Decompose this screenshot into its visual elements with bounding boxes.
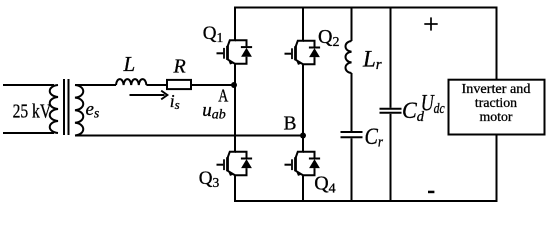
inverter and traction motor box (449, 80, 545, 135)
wire: left bridge rail (234, 8, 236, 202)
inductor L (116, 79, 146, 85)
wire: right bridge rail (302, 8, 304, 202)
wire: resistor to node A (191, 84, 235, 86)
wire: right edge to inverter (496, 8, 498, 202)
svg-text:R: R (173, 56, 186, 78)
svg-text:25 kV: 25 kV (13, 101, 52, 122)
transformer core (64, 79, 69, 135)
wire: 25 kV source top lead (3, 84, 54, 86)
svg-text:motor: motor (480, 109, 513, 124)
transformer secondary winding (75, 85, 83, 136)
IGBT Q2 (285, 41, 321, 65)
wire: secondary to inductor L (75, 84, 116, 86)
capacitor C_r (341, 132, 363, 137)
svg-text:Inverter and: Inverter and (462, 81, 531, 96)
current arrow i_s (130, 91, 168, 100)
svg-text:B: B (284, 113, 297, 134)
wire: C_r to bottom bus (351, 138, 353, 201)
IGBT Q3 (217, 152, 253, 176)
node B junction dot (300, 133, 306, 139)
inductor L_r (346, 41, 352, 73)
IGBT Q4 (285, 152, 321, 176)
plus terminal mark (424, 17, 437, 30)
wire: 25 kV source bottom lead (3, 132, 54, 134)
wire: inductor to resistor (146, 84, 167, 86)
resistor R (167, 80, 191, 89)
wire: transformer bottom to node B (75, 135, 303, 137)
IGBT Q1 (217, 40, 253, 64)
wire: filter branch upper (390, 8, 392, 108)
wire: resonant branch upper (351, 8, 353, 42)
transformer primary winding (50, 85, 58, 133)
capacitor C_d (380, 109, 402, 113)
wire: C_d to bottom bus (390, 114, 392, 201)
svg-text:traction: traction (475, 95, 517, 110)
minus terminal mark (428, 191, 434, 194)
svg-text:L: L (123, 52, 136, 76)
wire: L_r to C_r (351, 73, 353, 131)
label inverter and traction motor (462, 81, 531, 124)
wire: top DC bus (234, 7, 498, 9)
svg-text:A: A (218, 86, 228, 106)
wire: bottom DC bus (234, 200, 498, 202)
node A junction dot (231, 82, 237, 88)
